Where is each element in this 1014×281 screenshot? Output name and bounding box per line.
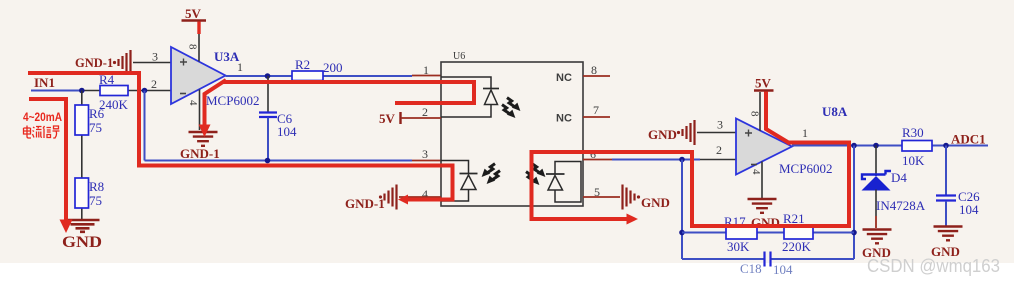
- pin 4 U3A: [187, 90, 200, 131]
- bracket detector: [555, 162, 581, 203]
- svg-text:U6: U6: [453, 51, 465, 62]
- op-amp U8A: [736, 119, 792, 175]
- arrow right U6 pin5 GND: [627, 214, 639, 225]
- red highlight trace IN1 to GND: [29, 99, 66, 221]
- svg-text:GND-1: GND-1: [75, 56, 113, 70]
- svg-text:1: 1: [802, 126, 808, 140]
- resistor R17: [724, 214, 757, 254]
- resistor R21: [782, 211, 813, 254]
- svg-text:104: 104: [773, 262, 793, 277]
- svg-text:1: 1: [237, 60, 243, 74]
- ground GND-1 below U3A: [180, 132, 220, 161]
- arrow down branch GND-1: [199, 125, 211, 138]
- pin 4 U8A: [750, 162, 762, 199]
- svg-text:8: 8: [187, 44, 199, 50]
- svg-text:IN4728A: IN4728A: [876, 198, 926, 213]
- svg-text:GND-1: GND-1: [180, 146, 220, 161]
- resistor R8: [75, 178, 104, 208]
- wire R6 leads: [81, 91, 83, 221]
- resistor R4: [99, 72, 129, 112]
- LED2 diode: [460, 174, 478, 190]
- red highlight trace GND-1 net: [28, 73, 453, 200]
- svg-text:4: 4: [750, 169, 762, 175]
- node junction feedback row left: [679, 230, 685, 236]
- arrows detector: [526, 164, 545, 185]
- svg-text:R6: R6: [89, 106, 105, 121]
- power port 5V U8A: [754, 76, 774, 91]
- ground GND below C26: [931, 227, 963, 260]
- ground GND bottom-left: [62, 220, 102, 251]
- red highlight trace U6 pin6 to U8A loop: [532, 92, 850, 227]
- svg-text:5: 5: [594, 185, 600, 199]
- wire U3A output row: [226, 75, 442, 78]
- ground GND-1 U6 pin4: [345, 185, 441, 212]
- svg-text:R8: R8: [89, 179, 104, 194]
- svg-text:R30: R30: [902, 125, 924, 140]
- ground GND U8A pin3: [648, 120, 695, 145]
- detector diode: [546, 174, 565, 190]
- svg-text:8: 8: [591, 63, 597, 77]
- svg-text:104: 104: [277, 124, 297, 139]
- svg-text:8: 8: [749, 111, 761, 117]
- pin 8 U3A: [187, 34, 200, 62]
- optocoupler U6 box: [441, 51, 583, 206]
- svg-text:10K: 10K: [902, 153, 925, 168]
- wire pin2-junction down to lower row: [144, 91, 146, 161]
- svg-text:1: 1: [423, 63, 429, 77]
- svg-text:5V: 5V: [185, 6, 202, 21]
- arrows LED2: [482, 164, 500, 184]
- svg-text:NC: NC: [556, 113, 572, 125]
- pin NC 8 U6: [556, 63, 610, 84]
- svg-text:GND: GND: [62, 234, 102, 251]
- svg-text:7: 7: [593, 103, 599, 117]
- pin NC 7 U6: [556, 103, 610, 125]
- svg-text:R21: R21: [783, 211, 805, 226]
- power port 5V U6 pin2: [379, 111, 441, 126]
- svg-text:3: 3: [717, 118, 723, 132]
- wire feedback left vertical: [681, 160, 683, 260]
- svg-text:75: 75: [89, 120, 102, 135]
- svg-text:2: 2: [151, 77, 157, 91]
- wire lower row to U6 pin3: [145, 160, 442, 162]
- node junction output/C26/ADC1: [943, 143, 949, 149]
- resistor R30: [902, 125, 932, 168]
- wire feedback row: [682, 232, 854, 234]
- svg-text:2: 2: [716, 143, 722, 157]
- node junction output/D4: [873, 143, 879, 149]
- svg-text:IN1: IN1: [34, 75, 55, 90]
- LED1 diode: [483, 89, 499, 105]
- svg-text:30K: 30K: [727, 239, 750, 254]
- bracket LED1: [441, 77, 491, 117]
- node junction feedback row right: [851, 230, 857, 236]
- svg-text:4: 4: [187, 100, 199, 106]
- svg-text:MCP6002: MCP6002: [779, 161, 832, 176]
- capacitor C18: [682, 252, 854, 278]
- arrow down trace IN1: [60, 220, 73, 234]
- svg-text:MCP6002: MCP6002: [206, 93, 259, 108]
- node junction lower row/C6: [265, 158, 271, 164]
- wire 5V red stub: [197, 22, 200, 35]
- power port 5V U3A: [182, 6, 207, 21]
- svg-text:2: 2: [422, 105, 428, 119]
- red highlight branch to GND-1: [205, 80, 227, 125]
- ground GND-1 top-left: [75, 50, 131, 75]
- svg-text:R2: R2: [295, 57, 310, 72]
- svg-text:U3A: U3A: [214, 49, 240, 64]
- pin 5 U6: [583, 185, 620, 199]
- wire U3A pin3: [133, 62, 171, 64]
- svg-text:GND: GND: [641, 195, 670, 210]
- capacitor C26: [936, 146, 980, 226]
- wire IN1 horizontal: [31, 90, 171, 92]
- op-amp U3A: [171, 47, 226, 104]
- svg-text:ADC1: ADC1: [951, 132, 986, 147]
- ground GND below D4: [862, 230, 892, 261]
- svg-text:GND: GND: [648, 127, 677, 142]
- node junction IN1/R4/R6: [79, 88, 85, 94]
- svg-text:200: 200: [323, 60, 343, 75]
- node junction output/feedback: [851, 143, 857, 149]
- svg-text:C18: C18: [740, 261, 762, 276]
- svg-text:75: 75: [89, 193, 102, 208]
- pin 6 U6 wire to U8A pin2: [583, 147, 736, 161]
- capacitor C6: [259, 76, 297, 161]
- ground GND U6 pin5: [623, 185, 670, 211]
- svg-text:3: 3: [152, 50, 158, 64]
- ground GND U8A pin4: [748, 199, 780, 230]
- svg-text:5V: 5V: [755, 76, 772, 91]
- node junction output/C6: [265, 73, 271, 79]
- pin 8 U8A: [749, 92, 761, 131]
- svg-text:3: 3: [422, 147, 428, 161]
- zener diode D4: [862, 146, 926, 229]
- bracket LED2: [441, 161, 469, 202]
- wire U8A output row: [792, 145, 988, 147]
- resistor R2: [292, 57, 343, 81]
- node junction R4/pin2/down: [142, 88, 148, 94]
- svg-text:220K: 220K: [782, 239, 812, 254]
- annotation chinese 电流信号: [24, 126, 60, 139]
- svg-text:CSDN @wmq163: CSDN @wmq163: [867, 255, 1000, 276]
- arrow left end trace GND-1: [398, 195, 408, 205]
- svg-text:D4: D4: [891, 170, 907, 185]
- svg-text:4~20mA: 4~20mA: [23, 112, 62, 124]
- svg-text:GND-1: GND-1: [345, 196, 385, 211]
- wire feedback right vertical: [853, 146, 855, 260]
- resistor R6: [75, 105, 105, 135]
- svg-text:U8A: U8A: [822, 104, 848, 119]
- node junction pin6row/feedback: [679, 157, 685, 163]
- wire U8A pin3: [697, 132, 736, 134]
- red highlight trace U3A output row: [223, 82, 474, 103]
- svg-text:5V: 5V: [379, 111, 396, 126]
- svg-text:NC: NC: [556, 72, 572, 84]
- svg-text:104: 104: [959, 202, 979, 217]
- emission arrows LED1: [502, 98, 520, 118]
